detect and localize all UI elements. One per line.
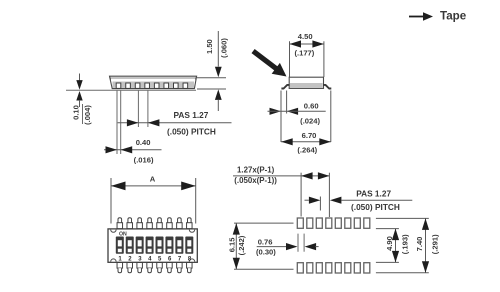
svg-text:(.264): (.264)	[297, 146, 317, 155]
svg-text:(.050x(P-1)): (.050x(P-1))	[234, 176, 277, 185]
svg-text:1.50: 1.50	[205, 39, 214, 54]
svg-text:(.060): (.060)	[220, 38, 229, 58]
svg-text:A: A	[150, 175, 156, 184]
svg-text:Tape: Tape	[440, 10, 467, 23]
svg-text:0.40: 0.40	[136, 138, 151, 147]
svg-text:(.004): (.004)	[83, 105, 92, 125]
svg-text:4.90: 4.90	[385, 236, 394, 251]
svg-text:6.15: 6.15	[227, 237, 236, 253]
svg-text:1.27x(P-1): 1.27x(P-1)	[237, 166, 275, 175]
svg-text:4.50: 4.50	[298, 32, 313, 41]
svg-text:(.050) PITCH: (.050) PITCH	[351, 202, 400, 212]
svg-text:(0.30): (0.30)	[256, 248, 276, 257]
svg-text:(.193): (.193)	[401, 234, 410, 254]
svg-text:(.291): (.291)	[431, 234, 440, 254]
svg-text:6.70: 6.70	[302, 131, 317, 140]
svg-text:(.177): (.177)	[294, 48, 314, 57]
svg-text:0.10: 0.10	[72, 105, 81, 120]
svg-text:0.76: 0.76	[258, 237, 273, 246]
svg-text:PAS 1.27: PAS 1.27	[356, 189, 391, 199]
svg-text:(.016): (.016)	[134, 155, 154, 164]
svg-text:PAS 1.27: PAS 1.27	[174, 110, 209, 120]
svg-text:7.40: 7.40	[415, 237, 424, 252]
svg-text:(.050) PITCH: (.050) PITCH	[167, 127, 216, 137]
svg-text:0.60: 0.60	[304, 102, 319, 111]
svg-text:(.242): (.242)	[237, 235, 246, 255]
svg-text:(.024): (.024)	[300, 117, 320, 126]
